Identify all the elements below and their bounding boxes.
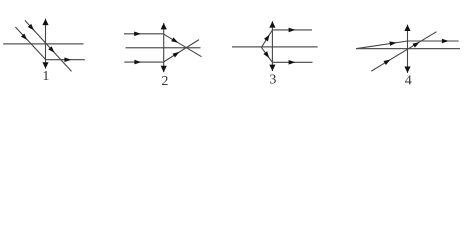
top incident horizontal ray (diagram 2) [124,33,164,35]
lens L1 top arrowhead [42,19,48,25]
diverging ray downward from focal point (diagram 3) [261,47,272,62]
top emergent arrowhead [289,28,296,33]
lens L4 vertical line [407,25,409,73]
ray B lower arrowhead [48,46,56,54]
svg-text:3: 3 [269,72,276,87]
ray A arrowhead [21,33,29,41]
emergent horizontal ray (diagram 1) [46,59,85,61]
top refracted ray crossing focus (diagram 2) [164,34,202,57]
lens L4 bottom arrowhead [404,67,410,73]
bottom incident horizontal ray (diagram 2) [124,61,163,63]
diverging ray upward from focal point (diagram 3) [261,30,272,47]
diagram 2 group [124,23,202,89]
lens L3 bottom arrowhead [269,65,275,71]
lens L2 bottom arrowhead [161,66,167,72]
upward ray arrowhead [264,33,272,41]
optical axis (diagram 4) [356,48,460,50]
top refracted arrowhead [171,37,179,44]
downward ray arrowhead [263,51,271,59]
diagram 3 group [232,21,318,87]
bottom emergent horizontal ray (diagram 3) [272,61,312,63]
optical axis (diagram 1) [3,43,83,45]
optical axis (diagram 2) [126,47,201,49]
lens L3 vertical line [271,21,273,71]
bottom refracted arrowhead [173,50,181,58]
diagram 4 group [356,25,460,89]
lens L2 vertical line [163,23,165,72]
incident ray A (diagram 1) [15,27,45,59]
bottom incident arrowhead [134,60,141,65]
bottom emergent arrowhead [289,60,296,65]
emergent horizontal ray (diagram 4) [408,40,459,42]
centre ray lower arrowhead [383,58,391,65]
lens L3 top arrowhead [269,21,275,27]
lens L1 bottom arrowhead [42,62,48,68]
lens L2 top arrowhead [161,23,167,29]
lens L4 top arrowhead [404,25,410,31]
emergent ray arrowhead [64,57,71,62]
ray through lens centre (diagram 4) [371,32,436,71]
top emergent horizontal ray (diagram 3) [272,29,312,31]
shallow ray arrowhead [389,40,396,46]
lens L1 vertical line [45,19,47,69]
svg-text:1: 1 [42,69,49,84]
svg-text:2: 2 [161,74,168,89]
optical axis (diagram 3) [232,46,318,48]
emergent arrowhead [442,39,449,44]
diagram 1 group [3,19,85,85]
bottom refracted ray crossing focus (diagram 2) [164,40,199,62]
shallow incident ray from axis (diagram 4) [357,41,408,49]
incident ray B through lens centre (diagram 1) [25,20,72,71]
top incident arrowhead [134,32,141,37]
svg-text:4: 4 [405,73,412,88]
ray B upper arrowhead [28,24,36,32]
centre ray upper arrowhead [412,40,420,47]
